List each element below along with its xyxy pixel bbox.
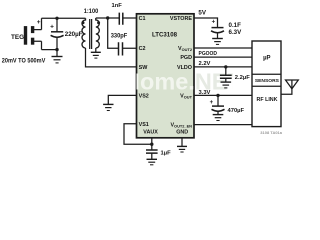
- svg-text:VOUT2_EN: VOUT2_EN: [170, 123, 192, 129]
- svg-text:6.3V: 6.3V: [229, 29, 243, 36]
- svg-text:VOUT2: VOUT2: [178, 46, 193, 52]
- svg-text:SW: SW: [139, 65, 149, 71]
- svg-text:GND: GND: [176, 129, 188, 135]
- svg-text:C2: C2: [139, 46, 146, 52]
- svg-text:330pF: 330pF: [111, 32, 128, 39]
- svg-text:20mV TO 500mV: 20mV TO 500mV: [2, 58, 46, 65]
- svg-text:PGOOD: PGOOD: [199, 51, 218, 57]
- svg-text:VLDO: VLDO: [177, 65, 192, 71]
- svg-text:VAUX: VAUX: [143, 130, 158, 136]
- svg-text:SENSORS: SENSORS: [255, 78, 280, 84]
- svg-text:VS1: VS1: [139, 122, 149, 128]
- svg-text:PGD: PGD: [180, 55, 192, 61]
- svg-text:220µF: 220µF: [65, 31, 83, 38]
- svg-text:2.2V: 2.2V: [199, 61, 211, 67]
- svg-text:1:100: 1:100: [84, 8, 99, 15]
- svg-text:µP: µP: [263, 55, 270, 61]
- svg-text:5V: 5V: [198, 10, 206, 17]
- svg-text:+: +: [212, 20, 216, 26]
- svg-text:VSTORE: VSTORE: [170, 16, 192, 22]
- svg-text:2.2µF: 2.2µF: [235, 75, 250, 81]
- svg-text:+: +: [37, 19, 41, 26]
- svg-text:VS2: VS2: [139, 94, 149, 100]
- svg-text:VOUT: VOUT: [180, 94, 192, 100]
- svg-text:0.1F: 0.1F: [229, 22, 242, 29]
- svg-text:1nF: 1nF: [112, 3, 123, 9]
- svg-text:LTC3108: LTC3108: [152, 32, 177, 39]
- svg-text:+: +: [210, 100, 214, 106]
- svg-text:RF LINK: RF LINK: [257, 97, 278, 103]
- svg-text:TEG: TEG: [11, 34, 24, 41]
- svg-text:3.3V: 3.3V: [199, 90, 211, 96]
- svg-text:1µF: 1µF: [161, 151, 172, 157]
- svg-text:3108 TA01a: 3108 TA01a: [260, 130, 282, 135]
- svg-text:C1: C1: [139, 16, 146, 22]
- svg-text:+: +: [50, 23, 54, 30]
- svg-text:470µF: 470µF: [228, 108, 245, 114]
